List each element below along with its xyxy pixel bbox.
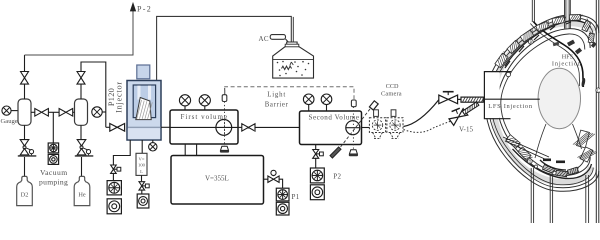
detector D2s: [349, 150, 358, 156]
flask (cryo liquid): [273, 42, 314, 78]
valve V-inj: [110, 124, 125, 132]
wire T1 bottom: [24, 125, 26, 139]
injector inner cell: [133, 85, 155, 118]
wire V2-T2: [73, 111, 75, 113]
HFS guide tube: [533, 22, 583, 88]
injector block: [127, 81, 161, 141]
tank T2 (He buffer): [75, 99, 88, 125]
wire elbow to injector valve: [106, 126, 110, 128]
valve V2: [59, 109, 73, 117]
relief valve RV2: [77, 72, 85, 85]
arrow P-2: [130, 3, 135, 11]
wire SV-B down: [141, 190, 143, 194]
pump P2b: [310, 185, 324, 200]
light beam B1: [224, 102, 226, 147]
wire V1-V2 with tee: [48, 111, 59, 113]
gauge G-F2: [199, 95, 210, 106]
wire V100 down: [141, 175, 143, 181]
svg-text:P1: P1: [292, 193, 300, 201]
injector channel 2: [148, 86, 151, 100]
flask bubbles: [277, 61, 310, 77]
tank V355: [171, 156, 264, 205]
angled tube (hatched): [462, 102, 478, 115]
wire V355 to MV1: [264, 178, 269, 180]
plasma: [538, 68, 580, 128]
svg-text:V=355L: V=355L: [205, 174, 229, 182]
wire SV-A down: [112, 173, 114, 180]
LFS injection axis: [483, 98, 540, 100]
relief valve RV1: [21, 72, 29, 85]
gauge G-S1: [303, 94, 314, 105]
fan F1: [216, 120, 232, 136]
duct wall left: [184, 144, 186, 156]
injector small head: [137, 65, 150, 79]
svg-text:100: 100: [138, 163, 146, 168]
svg-text:P-2: P-2: [137, 4, 152, 13]
gauge G-inj: [152, 140, 154, 143]
injector channel 1: [137, 86, 140, 100]
svg-text:P2: P2: [333, 172, 341, 180]
detector D1: [220, 146, 229, 152]
svg-text:He: He: [78, 192, 86, 199]
second volume box: [300, 111, 362, 145]
pump PA2: [107, 199, 121, 214]
label Vacuum pumping: [39, 168, 68, 186]
tokamak outer wall: [485, 15, 599, 191]
svg-text:Camera: Camera: [381, 91, 402, 98]
wire T2 bottom: [80, 125, 82, 139]
light source S2: [351, 100, 356, 107]
TF coil sections (top band): [495, 51, 510, 68]
pellet cone: [136, 98, 151, 120]
dotted wire to V-15: [404, 121, 453, 133]
svg-text:D2: D2: [21, 192, 29, 199]
valve SV-B: [139, 182, 149, 190]
duct wall right: [196, 144, 198, 156]
valve V-15: [449, 109, 468, 126]
motor valve MV1: [271, 170, 276, 175]
svg-text:L: L: [140, 169, 143, 174]
tank V100 box: [136, 153, 147, 175]
top solenoid column: [565, 0, 571, 28]
scatter dashed path: [335, 106, 373, 155]
valve V-F2S: [238, 126, 242, 128]
valve SV-C: [313, 150, 324, 159]
pump P1b: [276, 202, 289, 215]
light beam B2: [352, 107, 354, 150]
tokamak inner vessel wall: [497, 29, 590, 176]
bottle D2: [17, 176, 33, 205]
svg-text:Injector: Injector: [115, 81, 124, 113]
wire T2 top stem: [80, 84, 82, 99]
pump unit U1 (dashed): [369, 118, 385, 133]
fan F2: [346, 121, 360, 135]
feet U1: [373, 133, 383, 139]
valve TV: [439, 95, 458, 104]
pump unit U2 (dashed): [387, 118, 403, 133]
vacuum pump VP1: [48, 143, 58, 153]
svg-text:V-15: V-15: [459, 125, 474, 133]
vacuum pump VP2: [48, 154, 58, 164]
bottom supports: [530, 168, 532, 223]
tank T1 (D2 buffer): [18, 99, 31, 125]
valve SV-A: [111, 165, 121, 173]
svg-text:D: D: [528, 159, 531, 164]
wire RV1 to header: [24, 55, 26, 72]
bottle He: [74, 176, 90, 205]
regulator PR1: [18, 140, 37, 157]
guide tube (hatched): [461, 97, 483, 102]
wire MV1 to P1 stack: [279, 179, 283, 188]
wire SV bottom: [315, 145, 317, 150]
svg-text:CCD: CCD: [386, 83, 399, 90]
wire SV-C down: [315, 158, 317, 168]
feet U2: [390, 133, 400, 139]
lower band coils and divertor: [506, 135, 522, 150]
wire PR2 to bottle He: [81, 157, 83, 176]
svg-text:Second Volume: Second Volume: [309, 113, 360, 121]
central column lines: [595, 0, 597, 223]
pump PB1: [137, 194, 149, 208]
svg-text:Light: Light: [267, 91, 286, 98]
light source S1: [224, 88, 226, 95]
flask collar: [285, 44, 299, 47]
misc top band marks: [505, 22, 571, 68]
TF case arc bottom: [513, 149, 592, 179]
wire solid to valve TV: [404, 100, 439, 127]
pump PA1: [107, 181, 121, 195]
wire T1-V1: [31, 111, 35, 113]
first volume box: [170, 110, 238, 144]
gauge G-S2: [321, 94, 332, 105]
AC plug: [270, 35, 291, 46]
injector lower band: [128, 129, 160, 140]
svg-text:AC: AC: [259, 35, 269, 43]
svg-text:Injection: Injection: [552, 61, 582, 68]
wire injector drop A: [113, 140, 130, 165]
separatrix legs: [535, 124, 546, 158]
LFS port cutout: [485, 72, 500, 118]
label HFS Injection: [552, 54, 582, 68]
pump P1a: [276, 188, 289, 201]
wire T1 top stem: [24, 84, 26, 99]
label CCD Camera: [381, 83, 402, 98]
TF case arc top: [505, 21, 591, 66]
gauge G2: [92, 107, 106, 117]
svg-text:Vacuum: Vacuum: [40, 168, 68, 177]
svg-text:Gauge: Gauge: [1, 118, 18, 125]
label V=100L: [138, 156, 146, 173]
svg-text:LFS Injection: LFS Injection: [488, 103, 533, 110]
label P120 Injector: [107, 81, 124, 113]
port on U2: [391, 110, 396, 117]
regulator PR2: [75, 140, 94, 157]
wire PR1 to bottle D2: [24, 157, 26, 176]
valve V1: [35, 109, 49, 117]
wire injector drop B: [141, 140, 143, 153]
light barrier dashed line: [225, 87, 354, 100]
svg-text:V=: V=: [139, 156, 145, 161]
heater resistor: [282, 66, 292, 69]
gauge G-left: [2, 106, 18, 115]
pump P2a: [310, 168, 324, 183]
wire injector to first volume: [161, 126, 170, 128]
label Light Barrier: [265, 91, 289, 108]
wire TV to tube: [458, 98, 461, 100]
LFS port outline: [484, 72, 511, 119]
svg-text:B: B: [529, 40, 532, 45]
wire RV2 elbow: [81, 62, 106, 127]
enclosure frame: [157, 16, 292, 80]
wire axis through injector: [128, 126, 161, 128]
beam B1 junction tick: [224, 120, 226, 136]
port on U1: [374, 110, 379, 117]
svg-text:HFS: HFS: [562, 54, 574, 61]
wire SV to assembly: [362, 127, 370, 129]
mirror M1: [330, 147, 341, 158]
gauge G-F1: [179, 95, 190, 106]
svg-text:pumping: pumping: [39, 177, 68, 186]
shell band shading: [493, 23, 593, 103]
wire header P-2: [25, 10, 134, 55]
HFS feed lines: [531, 0, 533, 22]
divertor plates: [542, 165, 556, 174]
svg-text:Barrier: Barrier: [265, 101, 289, 108]
wire axis in first volume: [170, 126, 238, 128]
camera body: [369, 101, 378, 110]
wire tee down to pumps: [52, 112, 54, 143]
electrode wire: [292, 17, 294, 62]
